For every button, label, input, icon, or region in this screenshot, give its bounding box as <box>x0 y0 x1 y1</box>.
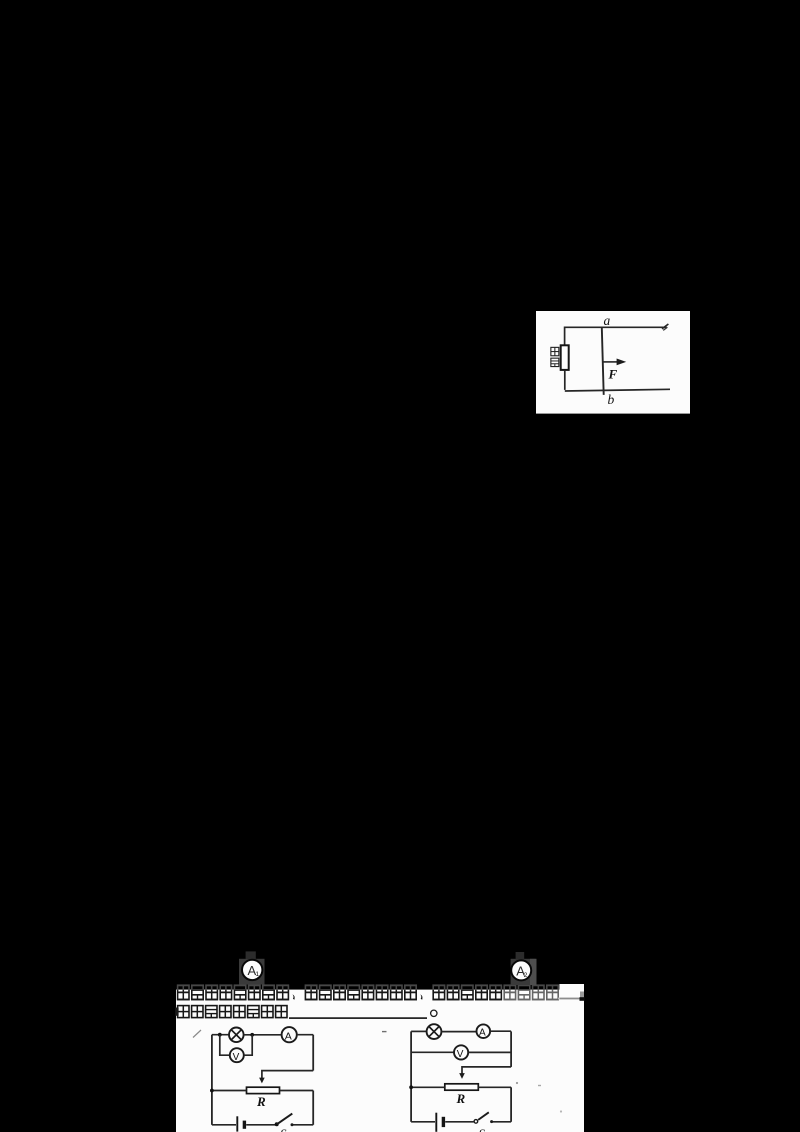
line2 full-stop circle <box>431 1010 437 1016</box>
L-circuit: battery short plate <box>243 1121 246 1129</box>
text line1 (gray tops on black) <box>178 985 559 999</box>
svg-text:2: 2 <box>524 972 528 979</box>
faint scratch top-left of L-circuit <box>193 1030 201 1038</box>
R-circuit: bottom wire mid segment <box>445 1121 473 1123</box>
R-circuit: right vertical wire lower <box>510 1087 512 1122</box>
L-circuit: jog wire to rheostat slider <box>262 1071 313 1079</box>
L-circuit: switch fixed contact blob <box>291 1123 294 1126</box>
gray stub above ammeter A1 <box>246 951 256 959</box>
conducting rod ab <box>602 327 604 395</box>
text line2 (dark on white) <box>178 1006 287 1018</box>
svg-text:R: R <box>256 1094 266 1109</box>
noise speck 1 <box>516 1082 518 1084</box>
R-circuit: mid wire right segment <box>478 1086 511 1088</box>
R-circuit: switch lever <box>478 1112 489 1120</box>
svg-text:A: A <box>285 1030 292 1042</box>
svg-text:S: S <box>280 1126 287 1132</box>
L-circuit: junction dot left of lamp <box>218 1033 222 1037</box>
R-circuit: battery long plate <box>435 1113 437 1132</box>
L-circuit: junction dot right of lamp <box>250 1033 254 1037</box>
svg-text:V: V <box>457 1049 464 1060</box>
top figure: wire a (top rail) <box>565 326 667 328</box>
gray residue patch around ammeter A2 <box>511 959 536 985</box>
R-circuit: top wire right segment <box>490 1030 511 1032</box>
ammeter A1 <box>242 960 262 980</box>
gray residue patch around ammeter A1 <box>239 959 265 985</box>
R-circuit: switch fixed contact blob <box>490 1120 493 1123</box>
L-circuit: bottom wire left segment <box>212 1124 236 1126</box>
svg-text:S: S <box>479 1126 486 1132</box>
L-circuit: slider arrow head <box>259 1078 265 1084</box>
L-circuit: junction dot mid-left <box>210 1089 214 1093</box>
stray dash left of R-circuit <box>382 1031 387 1033</box>
svg-text:A: A <box>479 1028 486 1039</box>
L-circuit: battery long plate <box>236 1116 238 1131</box>
R-circuit: battery short plate <box>442 1117 445 1127</box>
L-circuit: bottom wire mid segment <box>246 1124 276 1126</box>
L-circuit: mid wire left segment <box>212 1090 247 1092</box>
L-circuit: right vertical wire lower <box>312 1091 314 1125</box>
line1 answer blank underline <box>558 998 581 1000</box>
R-circuit: voltmeter <box>454 1045 468 1060</box>
text line1 (dark top of last char on white patch) <box>178 985 559 999</box>
R-circuit: jog wire to rheostat slider <box>462 1067 511 1074</box>
R-circuit: bottom wire right segment <box>491 1121 511 1123</box>
svg-text:1: 1 <box>255 971 259 978</box>
R-circuit: bottom wire left segment <box>411 1121 435 1123</box>
R-circuit: slider arrow head <box>459 1073 465 1079</box>
svg-text:a: a <box>604 313 611 328</box>
noise speck 2 <box>538 1085 541 1086</box>
force arrow head <box>617 359 627 366</box>
R-circuit: voltmeter row right wire <box>468 1051 511 1053</box>
svg-text:V: V <box>233 1052 240 1063</box>
force arrow shaft <box>602 361 617 363</box>
R-circuit: top wire left segment <box>411 1030 427 1032</box>
L-circuit: ammeter <box>282 1027 297 1042</box>
L-circuit: bottom wire right segment <box>291 1124 313 1126</box>
L-circuit: voltmeter branch left wire <box>220 1035 230 1056</box>
lighter gray strip right of A2 <box>530 959 537 985</box>
resistor (rectangle) <box>561 345 569 370</box>
R-circuit: junction dot mid-left <box>409 1085 413 1089</box>
L-circuit: top wire left segment <box>212 1034 229 1036</box>
R-circuit: right vertical wire upper <box>510 1031 512 1067</box>
tick second stroke <box>663 327 667 330</box>
R-circuit: rheostat body <box>445 1084 479 1090</box>
resistor vertical label glyphs <box>551 347 559 366</box>
white panel: top-right physics figure <box>536 311 690 414</box>
top figure: tick at right end of top rail <box>662 324 668 329</box>
L-circuit: voltmeter branch right wire <box>244 1035 252 1055</box>
L-circuit: lamp <box>229 1028 244 1043</box>
R-circuit: voltmeter row left wire <box>411 1051 454 1053</box>
L-circuit: right vertical wire upper <box>312 1035 314 1071</box>
L-circuit: rheostat body <box>247 1087 280 1093</box>
white patch right of line1 blank <box>559 984 584 990</box>
L-circuit: mid wire right segment <box>280 1090 314 1092</box>
svg-text:F: F <box>608 367 618 382</box>
wire: left lead from resistor down to bottom rail <box>564 370 566 390</box>
ammeter A2 <box>511 960 531 980</box>
wire: left lead from top rail down to resistor <box>564 327 566 346</box>
L-circuit: top wire mid segment <box>244 1034 282 1036</box>
R-circuit: lamp <box>427 1024 442 1039</box>
white panel: bottom question block <box>176 990 584 1132</box>
R-circuit: mid wire left segment <box>411 1086 445 1088</box>
line2 answer blank underline <box>289 1017 427 1019</box>
fade overlay over last chars of line1 <box>502 990 560 1001</box>
svg-text:R: R <box>456 1091 466 1106</box>
gray stub above ammeter A2 <box>516 952 525 960</box>
R-circuit: left vertical wire <box>410 1031 412 1121</box>
L-circuit: top wire right segment <box>297 1034 313 1036</box>
L-circuit: voltmeter <box>230 1048 244 1063</box>
L-circuit: switch lever <box>277 1114 293 1125</box>
R-circuit: ammeter <box>477 1024 491 1038</box>
noise speck 3 <box>560 1110 562 1112</box>
L-circuit: left vertical wire <box>211 1035 213 1125</box>
L-circuit: switch pivot dot <box>275 1122 279 1126</box>
line2 cut-off char fragment at left edge <box>175 1008 178 1016</box>
line1 gray column at blank end <box>580 992 584 999</box>
text line1 (dark lower halves on white) <box>178 985 559 999</box>
svg-text:b: b <box>608 392 615 407</box>
R-circuit: switch pivot (open contact) <box>474 1120 478 1124</box>
line1 black square at right edge <box>580 997 585 1001</box>
wire b (bottom rail) <box>565 389 670 391</box>
R-circuit: top wire mid segment <box>441 1031 476 1033</box>
